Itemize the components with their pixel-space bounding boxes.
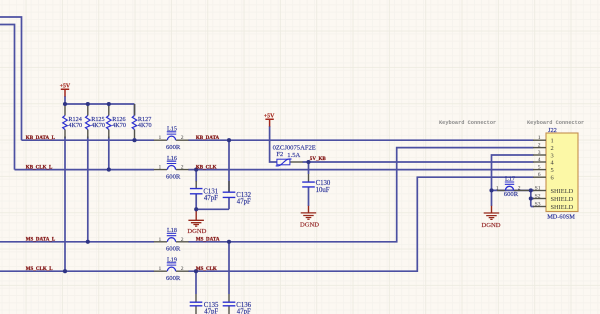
- svg-text:10uF: 10uF: [316, 187, 330, 194]
- svg-text:S1: S1: [535, 185, 541, 191]
- node MS_CLK: [196, 267, 217, 272]
- svg-text:SHIELD: SHIELD: [551, 196, 574, 203]
- junction (R124 top / +5V stem): [63, 102, 67, 106]
- junction (C131 bottom to ground): [194, 207, 198, 211]
- connector pin 2: [533, 142, 554, 152]
- wire C136 column: [228, 242, 230, 294]
- svg-text:S3: S3: [535, 201, 541, 207]
- capacitor C132: [223, 181, 252, 205]
- junction (C131 on KB_CLK): [194, 168, 198, 172]
- svg-text:2: 2: [181, 165, 184, 171]
- svg-text:DGND: DGND: [187, 228, 206, 235]
- svg-text:5: 5: [551, 167, 554, 174]
- svg-text:1: 1: [159, 237, 162, 243]
- svg-text:2: 2: [518, 185, 521, 191]
- connector pin 5: [533, 164, 554, 174]
- node KB_DATA_L: [26, 136, 56, 141]
- svg-text:L15: L15: [167, 125, 177, 132]
- resistor R124: [63, 104, 82, 138]
- svg-text:SHIELD: SHIELD: [551, 204, 574, 211]
- wire MS_CLK_L: [0, 270, 154, 272]
- wire C131/C132 bottoms to ground: [196, 209, 229, 211]
- wire MS_CLK to connector pin 6: [188, 177, 533, 271]
- power +5V (above fuse): [264, 113, 275, 126]
- wire: left entry to KB_DATA_L: [0, 17, 22, 140]
- svg-text:KB_DATA_L: KB_DATA_L: [26, 136, 56, 141]
- ground DGND (under connector pin 3 / L17): [482, 206, 501, 229]
- svg-text:4: 4: [538, 157, 541, 163]
- wire KB_DATA_L: [22, 139, 155, 141]
- svg-text:47pF: 47pF: [204, 308, 218, 314]
- junction (C132 on KB_DATA): [227, 138, 231, 142]
- junction (R127 on KB_DATA_L): [132, 138, 136, 142]
- junction (R124 on MS_CLK_L): [63, 269, 67, 273]
- capacitor C130: [302, 174, 331, 194]
- resistor R127: [132, 104, 151, 138]
- wire R126 column to KB_CLK_L: [108, 137, 110, 170]
- svg-text:1: 1: [496, 185, 499, 191]
- capacitor C131: [190, 181, 218, 202]
- wire L17 row to shield pins: [492, 190, 535, 206]
- node MS_DATA_L: [26, 238, 56, 243]
- svg-text:600R: 600R: [166, 144, 181, 151]
- wire MS_DATA to connector pin 2: [188, 148, 533, 242]
- svg-text:+5V: +5V: [60, 83, 71, 89]
- svg-text:MS_CLK: MS_CLK: [196, 267, 217, 272]
- capacitor C135: [190, 294, 219, 314]
- sheet text Keyboard Connector (right): [527, 120, 584, 126]
- connector pin 4: [533, 157, 555, 167]
- node KB_CLK: [196, 165, 217, 170]
- wire KB_CLK to connector pin 5: [188, 169, 533, 171]
- inductor L19: [154, 256, 189, 282]
- svg-text:J22: J22: [548, 127, 557, 134]
- svg-text:2: 2: [181, 266, 184, 272]
- svg-text:1: 1: [538, 135, 541, 141]
- svg-text:S2: S2: [535, 193, 541, 199]
- svg-text:+5V: +5V: [264, 113, 275, 119]
- junction (L17 pin2 / S1): [529, 188, 533, 192]
- wire C135 column: [195, 271, 197, 294]
- svg-text:3: 3: [538, 150, 541, 156]
- svg-text:1: 1: [159, 135, 162, 141]
- ground DGND (under C131/C132): [187, 210, 206, 235]
- svg-text:L19: L19: [167, 256, 177, 263]
- svg-text:MD-60SM: MD-60SM: [547, 213, 575, 220]
- svg-text:47pF: 47pF: [204, 195, 218, 202]
- svg-text:2: 2: [538, 142, 541, 148]
- svg-text:1: 1: [551, 138, 554, 145]
- wire: left entry to KB_CLK_L: [0, 25, 15, 170]
- svg-text:KB_CLK_L: KB_CLK_L: [26, 165, 53, 170]
- svg-text:600R: 600R: [166, 275, 181, 282]
- junction (R126 on KB_CLK_L): [107, 168, 111, 172]
- inductor L15: [154, 125, 189, 151]
- junction (L17 pin1 / pin3 column): [489, 188, 493, 192]
- wire C132 column: [228, 140, 230, 209]
- svg-text:600R: 600R: [166, 174, 181, 181]
- svg-text:2: 2: [551, 145, 554, 152]
- svg-text:L17: L17: [505, 175, 515, 182]
- svg-text:47pF: 47pF: [237, 308, 251, 314]
- wire connector pin 3 to DGND via L17 junction: [492, 155, 534, 206]
- svg-text:4K70: 4K70: [91, 122, 105, 129]
- wire 5V_KB fuse output to connector pin 4: [303, 161, 534, 163]
- svg-text:1.5A: 1.5A: [287, 152, 300, 159]
- sheet text Keyboard Connector (left): [439, 120, 496, 126]
- svg-text:6: 6: [551, 175, 554, 182]
- svg-text:DGND: DGND: [300, 221, 319, 228]
- wire MS_DATA_L: [0, 241, 154, 243]
- svg-text:1: 1: [159, 165, 162, 171]
- connector pin S3 SHIELD: [533, 201, 574, 211]
- ground DGND (under C130): [300, 206, 319, 229]
- svg-text:MS_CLK_L: MS_CLK_L: [26, 267, 53, 272]
- resistor R125: [86, 104, 105, 138]
- connector pin S1 SHIELD: [533, 185, 574, 195]
- inductor L18: [154, 227, 189, 253]
- svg-text:6: 6: [538, 172, 541, 178]
- svg-text:KB_DATA: KB_DATA: [196, 136, 220, 141]
- junction (shield S2): [529, 196, 533, 200]
- svg-text:MS_DATA: MS_DATA: [196, 238, 220, 243]
- wire +5V stem to fuse: [270, 126, 277, 162]
- junction (C135 on MS_CLK): [194, 269, 198, 273]
- svg-text:KB_CLK: KB_CLK: [196, 165, 217, 170]
- connector J22 MD-60SM: [546, 127, 578, 220]
- connector pin 3: [533, 150, 554, 160]
- capacitor C136: [223, 294, 252, 314]
- svg-text:4K70: 4K70: [138, 122, 152, 129]
- connector pin 6: [533, 172, 554, 182]
- connector pin S2 SHIELD: [533, 193, 574, 203]
- power +5V (above resistors): [60, 83, 71, 96]
- node 5V_KB: [310, 157, 327, 162]
- wire shield S3 stub link: [531, 206, 534, 208]
- svg-text:Keyboard Connector: Keyboard Connector: [527, 120, 584, 126]
- svg-text:47pF: 47pF: [237, 198, 251, 205]
- svg-text:1: 1: [159, 266, 162, 272]
- svg-text:5: 5: [538, 164, 541, 170]
- svg-text:DGND: DGND: [482, 222, 501, 229]
- node MS_DATA: [196, 238, 220, 243]
- node KB_DATA: [196, 136, 220, 141]
- inductor L16: [154, 155, 189, 181]
- wire R125 column to MS_DATA_L: [87, 137, 89, 242]
- wire C131 column: [195, 170, 197, 210]
- svg-text:SHIELD: SHIELD: [551, 188, 574, 195]
- junction (C136 on MS_DATA): [227, 240, 231, 244]
- svg-text:L16: L16: [167, 155, 177, 162]
- junction (R125 top): [86, 102, 90, 106]
- junction (fuse output 5V_KB): [306, 160, 310, 164]
- wire shield S2 stub link: [531, 198, 534, 200]
- junction (R126 top): [107, 102, 111, 106]
- wire R124 column to MS_CLK_L: [64, 137, 66, 272]
- svg-text:L18: L18: [167, 227, 177, 234]
- svg-text:600R: 600R: [504, 191, 519, 198]
- svg-text:3: 3: [551, 153, 554, 160]
- wire KB_DATA to connector pin 1: [188, 139, 533, 141]
- svg-text:Keyboard Connector: Keyboard Connector: [439, 120, 496, 126]
- svg-text:2: 2: [181, 135, 184, 141]
- wire +5V rail above resistors: [65, 96, 135, 116]
- fuse F2: [273, 145, 316, 166]
- wire KB_CLK_L: [15, 169, 155, 171]
- junction (R125 on MS_DATA_L): [86, 240, 90, 244]
- resistor R126: [107, 104, 126, 138]
- svg-text:2: 2: [181, 237, 184, 243]
- svg-text:4K70: 4K70: [68, 122, 82, 129]
- svg-text:5V_KB: 5V_KB: [310, 157, 327, 162]
- svg-text:MS_DATA_L: MS_DATA_L: [26, 238, 56, 243]
- svg-text:F2: F2: [276, 151, 283, 158]
- inductor L17: [496, 175, 530, 197]
- wire C130 column: [308, 162, 310, 206]
- node MS_CLK_L: [26, 267, 53, 272]
- svg-text:600R: 600R: [166, 246, 181, 253]
- node KB_CLK_L: [26, 165, 53, 170]
- connector pin 1: [533, 135, 554, 145]
- svg-text:4K70: 4K70: [112, 122, 126, 129]
